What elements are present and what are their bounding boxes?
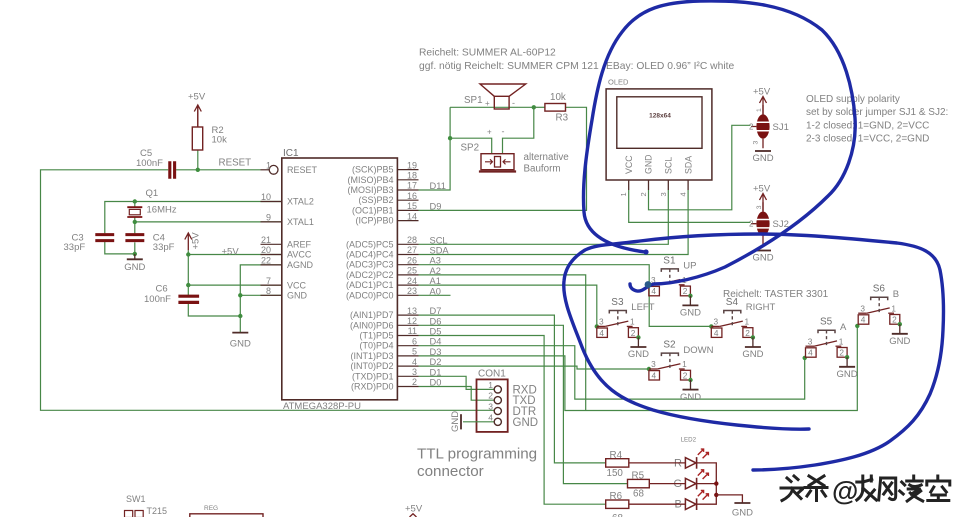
svg-text:13: 13	[407, 306, 417, 316]
svg-text:R4: R4	[610, 450, 623, 461]
wire D2 net to S2	[419, 366, 649, 369]
svg-text:A1: A1	[430, 276, 441, 286]
capacitor C5 100nF (reset series cap)	[170, 161, 175, 179]
wire D3 net to S6 rail	[419, 325, 858, 411]
svg-text:D3: D3	[430, 347, 442, 357]
capacitor C3 33pF	[95, 235, 114, 241]
svg-text:(AIN0)PD6: (AIN0)PD6	[350, 320, 394, 330]
svg-text:Reichelt: TASTER 3301: Reichelt: TASTER 3301	[723, 289, 829, 300]
ground below LED2	[734, 502, 750, 504]
svg-text:7: 7	[266, 276, 271, 286]
node LED cathode junction B	[714, 493, 718, 497]
svg-text:68: 68	[612, 513, 623, 517]
svg-text:+5V: +5V	[405, 504, 423, 515]
svg-text:R6: R6	[610, 491, 623, 502]
svg-text:(SS)PB2: (SS)PB2	[358, 195, 393, 205]
node C3/C4 ground junction	[133, 252, 137, 256]
svg-text:2: 2	[749, 122, 754, 131]
svg-text:D2: D2	[430, 357, 442, 367]
svg-text:23: 23	[407, 286, 417, 296]
svg-text:22: 22	[261, 256, 271, 266]
svg-text:D0: D0	[430, 378, 442, 388]
svg-text:2: 2	[631, 328, 636, 338]
svg-text:25: 25	[407, 266, 417, 276]
wire OLED pin1 VCC to SJ2 center	[629, 190, 751, 222]
resistor R2 10k (reset pullup)	[192, 127, 202, 150]
+5V supply symbol at AVCC	[185, 233, 192, 250]
svg-text:IC1: IC1	[283, 148, 299, 159]
svg-text:(ADC4)PC4: (ADC4)PC4	[346, 250, 394, 260]
speaker SP1	[494, 96, 509, 109]
svg-text:S2: S2	[663, 340, 676, 351]
svg-text:A0: A0	[430, 286, 441, 296]
svg-text:15: 15	[407, 201, 417, 211]
OLED display module 128x64	[606, 89, 712, 180]
wire C4 bottom to GND	[134, 242, 136, 254]
svg-text:4: 4	[412, 357, 417, 367]
svg-text:(ICP)PB0: (ICP)PB0	[355, 216, 393, 226]
wire SP2 minus lead to R3	[503, 107, 534, 153]
wire Q1 top stub	[134, 202, 136, 208]
ground of switch S2 DOWN pushbutton	[690, 380, 692, 390]
svg-text:3: 3	[714, 317, 719, 327]
wire SP1 net	[450, 106, 534, 108]
svg-text:10k: 10k	[550, 92, 566, 103]
svg-text:100nF: 100nF	[144, 294, 171, 305]
wire R6 out to LED B	[629, 503, 686, 505]
OLED pin 3 SCL	[667, 180, 669, 190]
svg-text:12: 12	[407, 316, 417, 326]
svg-text:1: 1	[839, 336, 844, 346]
svg-text:GND: GND	[680, 308, 701, 319]
resistor R4 box	[606, 459, 629, 467]
wire R3 left	[534, 106, 545, 108]
svg-text:(ADC1)PC1: (ADC1)PC1	[346, 280, 394, 290]
svg-text:LED2: LED2	[681, 437, 697, 444]
wire D5 net to R6	[419, 336, 606, 505]
svg-text:16MHz: 16MHz	[147, 205, 177, 216]
svg-text:GND: GND	[287, 291, 308, 301]
svg-text:3: 3	[651, 359, 656, 369]
svg-text:10k: 10k	[212, 135, 228, 146]
svg-text:33pF: 33pF	[153, 242, 175, 253]
wire A3 net to S1 and S4	[419, 265, 712, 327]
svg-text:RESET: RESET	[219, 157, 252, 168]
svg-text:RIGHT: RIGHT	[746, 302, 776, 313]
svg-text:A3: A3	[430, 256, 441, 266]
svg-text:100nF: 100nF	[136, 158, 163, 169]
svg-text:+5V: +5V	[191, 232, 202, 250]
ground below AGND/C6	[232, 332, 248, 334]
svg-text:DOWN: DOWN	[683, 345, 713, 356]
svg-text:9: 9	[266, 213, 271, 223]
svg-text:R5: R5	[632, 471, 645, 482]
svg-text:2: 2	[683, 286, 688, 296]
svg-text:24: 24	[407, 276, 417, 286]
svg-text:21: 21	[261, 235, 271, 245]
svg-text:GND: GND	[732, 508, 753, 517]
svg-text:2: 2	[745, 328, 750, 338]
svg-text:(T0)PD4: (T0)PD4	[359, 341, 393, 351]
svg-text:(MISO)PB4: (MISO)PB4	[347, 175, 393, 185]
svg-text:+5V: +5V	[188, 92, 206, 103]
svg-text:S6: S6	[873, 284, 886, 295]
svg-text:+5V: +5V	[753, 184, 771, 195]
svg-text:SJ1: SJ1	[773, 122, 789, 133]
switch S6 B pushbutton	[858, 312, 867, 314]
svg-text:4: 4	[808, 348, 813, 358]
svg-text:5: 5	[412, 347, 417, 357]
CON1 pin 1 RXD	[494, 386, 501, 393]
op-amp U1 : microcontroller IC1 ATMEGA328P-PU body	[282, 158, 398, 400]
svg-text:4: 4	[651, 286, 656, 296]
wire D0 net to CON1 TXD	[419, 387, 495, 401]
svg-text:D7: D7	[430, 306, 442, 316]
svg-text:GND: GND	[752, 153, 773, 164]
svg-text:2-3 closed: 1=VCC, 2=GND: 2-3 closed: 1=VCC, 2=GND	[806, 134, 929, 145]
svg-text:(ADC5)PC5: (ADC5)PC5	[346, 239, 394, 249]
LED red element of LED2	[685, 458, 696, 469]
svg-text:2: 2	[839, 348, 844, 358]
svg-text:R3: R3	[556, 113, 569, 124]
svg-text:1: 1	[619, 192, 628, 196]
CON1 pin 2 TXD	[494, 397, 501, 404]
svg-text:128x64: 128x64	[649, 113, 671, 120]
svg-text:D9: D9	[430, 201, 442, 211]
svg-text:SP1: SP1	[464, 95, 483, 106]
CON1 pin 4 GND	[494, 418, 501, 425]
svg-text:T215: T215	[147, 506, 168, 516]
resistor R5 box	[628, 479, 650, 487]
svg-text:GND: GND	[644, 154, 654, 174]
svg-text:+5V: +5V	[753, 87, 771, 98]
svg-text:(INT1)PD3: (INT1)PD3	[350, 351, 393, 361]
resistor R3 box	[545, 104, 566, 112]
svg-text:GND: GND	[230, 339, 251, 350]
svg-text:1-2 closed: 1=GND, 2=VCC: 1-2 closed: 1=GND, 2=VCC	[806, 120, 929, 131]
svg-text:D5: D5	[430, 327, 442, 337]
blue annotation stroke upper loop around OLED and jumpers	[583, 1, 855, 291]
ground below SJ2	[755, 250, 771, 252]
svg-text:1: 1	[745, 317, 750, 327]
svg-text:A2: A2	[430, 266, 441, 276]
wire D7 net to R4	[419, 315, 606, 463]
wire DTR/reset rail: left rail from C5 down and along bottom to CON1 DTR	[41, 170, 495, 410]
switch S2 DOWN pushbutton	[649, 368, 658, 370]
svg-text:6: 6	[412, 336, 417, 346]
svg-text:8: 8	[266, 286, 271, 296]
svg-text:XTAL2: XTAL2	[287, 197, 314, 207]
svg-text:B: B	[893, 289, 899, 300]
svg-text:1: 1	[630, 317, 635, 327]
svg-text:LEFT: LEFT	[631, 302, 654, 313]
crystal Q1 16MHz	[127, 207, 142, 217]
node junction R2/C5/RESET	[196, 168, 200, 172]
svg-text:(ADC0)PC0: (ADC0)PC0	[346, 290, 394, 300]
svg-text:27: 27	[407, 245, 417, 255]
wire A2 net down to lower rail	[419, 275, 586, 411]
svg-text:ggf. nötig Reichelt: SUMMER CP: ggf. nötig Reichelt: SUMMER CPM 121	[419, 61, 599, 72]
svg-text:(AIN1)PD7: (AIN1)PD7	[350, 310, 394, 320]
svg-text:33pF: 33pF	[64, 242, 86, 253]
switch S5 A pushbutton	[806, 345, 815, 347]
svg-text:1: 1	[266, 161, 271, 171]
svg-text:16: 16	[407, 191, 417, 201]
svg-text:TTL programming: TTL programming	[417, 446, 537, 463]
svg-text:1: 1	[682, 359, 687, 369]
svg-text:4: 4	[679, 192, 688, 196]
svg-text:set by solder jumper SJ1 & SJ2: set by solder jumper SJ1 & SJ2:	[806, 107, 948, 118]
wire D1 net to CON1 RXD	[419, 376, 495, 389]
solder jumper SJ1	[756, 114, 769, 138]
node XTAL1/Q1/C4 junction	[133, 220, 137, 224]
svg-text:1: 1	[891, 303, 896, 313]
svg-text:alternative: alternative	[524, 152, 570, 163]
node S6 pad4 junction	[855, 324, 859, 328]
node C6/GND junction	[238, 314, 242, 318]
svg-text:REG: REG	[204, 505, 218, 512]
wire C6 top	[187, 285, 189, 295]
wire R2 bottom to RESET net	[197, 150, 199, 170]
svg-text:(T1)PD5: (T1)PD5	[359, 331, 393, 341]
svg-text:+5V: +5V	[222, 246, 240, 257]
svg-text:2: 2	[683, 370, 688, 380]
svg-text:3: 3	[753, 141, 760, 145]
svg-text:18: 18	[407, 171, 417, 181]
svg-text:3: 3	[488, 402, 493, 412]
OLED pin 1 VCC	[628, 180, 630, 190]
node VCC/C6 junction	[186, 283, 190, 287]
wire LED common cathode column	[697, 463, 717, 504]
wire C6 bottom to GND row	[188, 304, 240, 316]
svg-text:2: 2	[749, 220, 754, 229]
svg-text:-: -	[502, 127, 505, 137]
buzzer SP2 alternative	[481, 154, 514, 170]
svg-text:(MOSI)PB3: (MOSI)PB3	[347, 185, 393, 195]
svg-text:ATMEGA328P-PU: ATMEGA328P-PU	[283, 401, 361, 412]
svg-text:4: 4	[599, 328, 604, 338]
capacitor C4 33pF	[125, 235, 144, 241]
wire D4 net to S5 rail	[419, 346, 805, 399]
ground of switch S1 UP pushbutton	[689, 296, 691, 306]
svg-text:D6: D6	[430, 316, 442, 326]
svg-text:GND: GND	[680, 392, 701, 403]
wire LED cathode to GND	[716, 495, 742, 503]
svg-text:1: 1	[488, 380, 493, 390]
svg-text:2: 2	[639, 192, 648, 196]
wire GND column to ground symbol	[239, 316, 241, 333]
wire SCL net to OLED pin3	[419, 190, 669, 244]
wire D11 net to speaker	[419, 107, 451, 190]
svg-text:SCL: SCL	[430, 235, 448, 245]
svg-text:SCL: SCL	[664, 157, 674, 174]
wire XTAL2 net	[105, 202, 282, 234]
ground of switch S3 LEFT pushbutton	[637, 337, 639, 347]
svg-text:3: 3	[412, 367, 417, 377]
svg-text:VCC: VCC	[624, 155, 634, 174]
OLED pin 4 SDA	[687, 180, 689, 190]
svg-text:connector: connector	[417, 463, 484, 480]
svg-text:GND: GND	[513, 417, 539, 429]
IC1 left pins with pin numbers	[261, 169, 270, 171]
wire OLED pin2 GND to SJ1 center	[649, 125, 751, 210]
ground at CON1 pin4 (rotated)	[460, 414, 462, 429]
svg-text:4: 4	[861, 315, 866, 325]
svg-text:2: 2	[412, 377, 417, 387]
svg-text:+: +	[485, 99, 490, 108]
+5V supply symbol above R2	[194, 105, 201, 127]
node AGND/GND junction	[238, 293, 242, 297]
wire A0 stub	[419, 294, 451, 296]
wire GND pin8	[240, 294, 281, 296]
wire RESET net: C5 to IC pin1	[176, 169, 260, 171]
solder jumper SJ2	[756, 212, 769, 236]
svg-text:GND: GND	[124, 262, 145, 273]
svg-text:4: 4	[714, 328, 719, 338]
svg-text:2: 2	[892, 315, 897, 325]
svg-text:4: 4	[488, 412, 493, 422]
svg-text:RESET: RESET	[287, 165, 318, 175]
svg-text:26: 26	[407, 255, 417, 265]
svg-text:(INT0)PD2: (INT0)PD2	[350, 361, 393, 371]
CON1 pin 3 DTR	[494, 407, 501, 414]
wire R5 out to LED G	[649, 483, 685, 485]
+5V supply above SJ1	[760, 97, 767, 115]
node +5V/AVCC junction	[186, 252, 190, 256]
node XTAL2/Q1 junction	[133, 199, 137, 203]
svg-text:GND: GND	[628, 349, 649, 360]
svg-text:28: 28	[407, 235, 417, 245]
node SP2 + junction	[448, 136, 452, 140]
wire C3 bottom to GND	[105, 242, 135, 254]
svg-text:-: -	[512, 98, 515, 108]
svg-text:AREF: AREF	[287, 240, 312, 250]
node SP1-/R3 junction	[532, 105, 536, 109]
svg-text:2: 2	[488, 391, 493, 401]
svg-text:GND: GND	[752, 253, 773, 264]
svg-text:3: 3	[599, 317, 604, 327]
capacitor C6 100nF	[178, 296, 199, 302]
LED blue element of LED2	[685, 499, 696, 510]
svg-text:(OC1)PB1: (OC1)PB1	[352, 205, 394, 215]
svg-text:SDA: SDA	[683, 156, 693, 174]
svg-text:AGND: AGND	[287, 260, 314, 270]
wire CON1 GND internal stub	[463, 421, 494, 423]
wire A1 net to S3	[419, 285, 597, 326]
svg-text:D4: D4	[430, 337, 442, 347]
wire +5V arrow to AVCC rail	[188, 250, 281, 254]
svg-text:(TXD)PD1: (TXD)PD1	[352, 371, 394, 381]
svg-text:S1: S1	[663, 255, 676, 266]
wire Q1 bottom stub	[134, 217, 136, 222]
svg-text:3: 3	[659, 192, 668, 196]
svg-text:GND: GND	[837, 369, 858, 380]
switch S4 RIGHT pushbutton	[711, 325, 720, 327]
svg-text:S3: S3	[611, 297, 624, 308]
svg-text:4: 4	[652, 370, 657, 380]
svg-text:SDA: SDA	[430, 246, 450, 256]
ground below C3/C4	[134, 254, 136, 259]
svg-text:AVCC: AVCC	[287, 250, 312, 260]
connector CON1 TTL programming header	[477, 379, 508, 432]
node LED cathode junction G	[714, 481, 718, 485]
svg-text:68: 68	[633, 489, 644, 500]
ground of switch S4 RIGHT pushbutton	[752, 337, 754, 347]
svg-text:11: 11	[408, 326, 417, 336]
wire D6 net to R5	[419, 325, 628, 483]
ground of switch S5 A pushbutton	[846, 357, 848, 367]
svg-text:1: 1	[756, 108, 763, 112]
svg-text:(SCK)PB5: (SCK)PB5	[352, 165, 394, 175]
svg-text:VCC: VCC	[287, 280, 307, 290]
svg-text:XTAL1: XTAL1	[287, 217, 314, 227]
node S5 pad4 junction	[803, 356, 807, 360]
ground of switch S6 B pushbutton	[899, 324, 901, 334]
svg-text:UP: UP	[683, 261, 696, 272]
svg-text:D1: D1	[430, 367, 442, 377]
watermark toutiao logo text	[781, 476, 803, 501]
wire R3 right down to D9	[419, 107, 587, 210]
svg-text:@: @	[832, 476, 858, 506]
svg-text:Q1: Q1	[146, 188, 159, 199]
node S4 pin3 junction	[709, 324, 713, 328]
svg-text:Reichelt: SUMMER AL-60P12: Reichelt: SUMMER AL-60P12	[419, 48, 556, 59]
svg-text:GND: GND	[450, 411, 461, 432]
svg-text:10: 10	[261, 192, 271, 202]
svg-text:+: +	[487, 128, 492, 137]
svg-text:SP2: SP2	[461, 143, 480, 154]
svg-text:GND: GND	[889, 336, 910, 347]
svg-text:GND: GND	[742, 349, 763, 360]
svg-text:3: 3	[808, 336, 813, 346]
LED green element of LED2	[685, 478, 696, 489]
switch S1 UP pushbutton	[649, 284, 658, 286]
svg-text:150: 150	[607, 468, 624, 479]
svg-text:SW1: SW1	[126, 494, 146, 504]
+5V supply above SJ2	[760, 194, 767, 212]
svg-text:19: 19	[407, 160, 417, 170]
ground below SJ1	[755, 150, 771, 152]
IC1 right pins with pin numbers and net labels	[397, 169, 418, 171]
wire +5V down to VCC row	[188, 255, 281, 286]
wire R4 out to LED R	[629, 462, 686, 464]
wire AGND to GND column	[240, 265, 281, 316]
svg-text:(ADC3)PC3: (ADC3)PC3	[346, 260, 394, 270]
resistor R6 box	[606, 500, 629, 508]
svg-text:3: 3	[860, 303, 865, 313]
blue annotation stroke lower loop around buttons	[564, 234, 944, 470]
svg-text:S5: S5	[820, 317, 833, 328]
wire XTAL1 net	[135, 222, 282, 233]
svg-text:20: 20	[261, 245, 271, 255]
svg-text:OLED: OLED	[608, 78, 629, 87]
svg-text:D11: D11	[430, 181, 446, 191]
svg-text:EBay: OLED 0.96” I²C white: EBay: OLED 0.96” I²C white	[606, 61, 734, 72]
wire SP2 plus lead	[450, 138, 492, 154]
svg-text:3: 3	[756, 205, 763, 209]
svg-text:CON1: CON1	[478, 369, 506, 380]
svg-text:A: A	[840, 322, 847, 333]
node S2 pin3 junction	[647, 367, 651, 371]
svg-text:17: 17	[407, 181, 417, 191]
node S3 pin3 junction	[595, 324, 599, 328]
svg-text:C6: C6	[156, 284, 168, 295]
svg-text:Bauform: Bauform	[524, 164, 561, 175]
switch S3 LEFT pushbutton	[597, 325, 606, 327]
OLED pin 2 GND	[648, 180, 650, 190]
svg-text:(RXD)PD0: (RXD)PD0	[351, 382, 394, 392]
svg-text:(ADC2)PC2: (ADC2)PC2	[346, 270, 394, 280]
